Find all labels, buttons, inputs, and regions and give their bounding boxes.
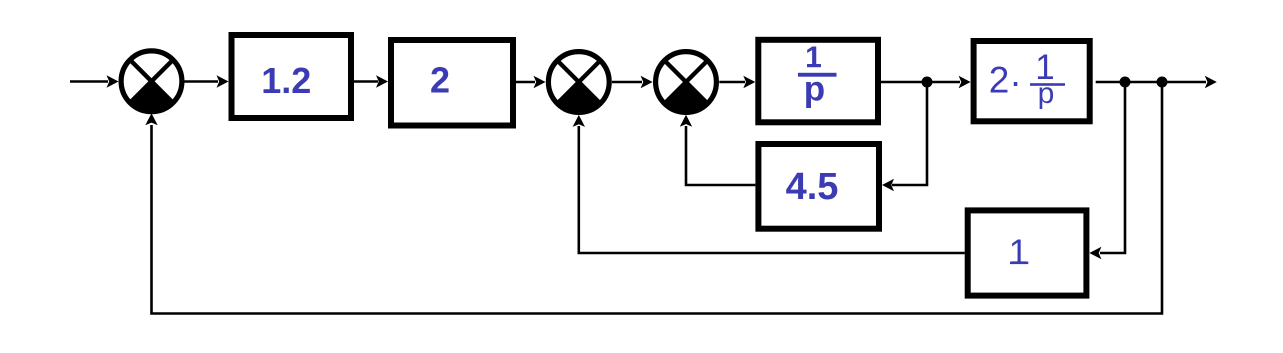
wire 1.2 to gain block 2 xyxy=(354,75,388,87)
wire S1 to gain block 1.2 xyxy=(184,75,229,87)
svg-text:2: 2 xyxy=(989,60,1010,101)
node dot B2 on output wire xyxy=(1157,77,1168,88)
node dot B1 on output wire xyxy=(1120,77,1131,88)
svg-text:p: p xyxy=(804,70,825,109)
node dot after 1/p xyxy=(922,77,933,88)
wire node after 1/p down to gain 4.5 xyxy=(882,82,927,191)
gain block 2 xyxy=(391,40,513,126)
wire S2 to summing junction S3 xyxy=(612,76,653,88)
wire node B1 down to gain 1 xyxy=(1089,82,1125,259)
svg-text:1: 1 xyxy=(1009,233,1028,272)
summing junction S2 xyxy=(548,52,609,113)
wire gain 2 to summing junction S2 xyxy=(516,76,546,88)
svg-text:2: 2 xyxy=(430,60,450,101)
gain block 1.2 xyxy=(232,35,352,118)
integrator block 1/p xyxy=(758,40,878,123)
wire 1/p to block 2*1/p xyxy=(881,76,971,88)
wire gain 4.5 to S3 xyxy=(680,115,756,185)
svg-text:1.2: 1.2 xyxy=(261,60,311,101)
gain block 4.5 xyxy=(758,144,879,229)
summing junction S1 xyxy=(121,51,182,112)
svg-text:·: · xyxy=(1009,61,1021,102)
wire node B2 down and around to S1 (outer feedback) xyxy=(145,82,1162,314)
gain block 1 xyxy=(968,210,1087,295)
wire 2*1/p to output xyxy=(1096,76,1217,88)
transfer block 2*1/p xyxy=(974,41,1090,121)
summing junction S3 xyxy=(656,52,717,113)
svg-text:p: p xyxy=(1038,77,1055,110)
wire gain 1 to S2 xyxy=(573,115,965,253)
wire input to summing junction S1 xyxy=(70,75,119,87)
wire S3 to integrator block 1/p xyxy=(719,76,755,88)
svg-text:4.5: 4.5 xyxy=(786,166,839,208)
